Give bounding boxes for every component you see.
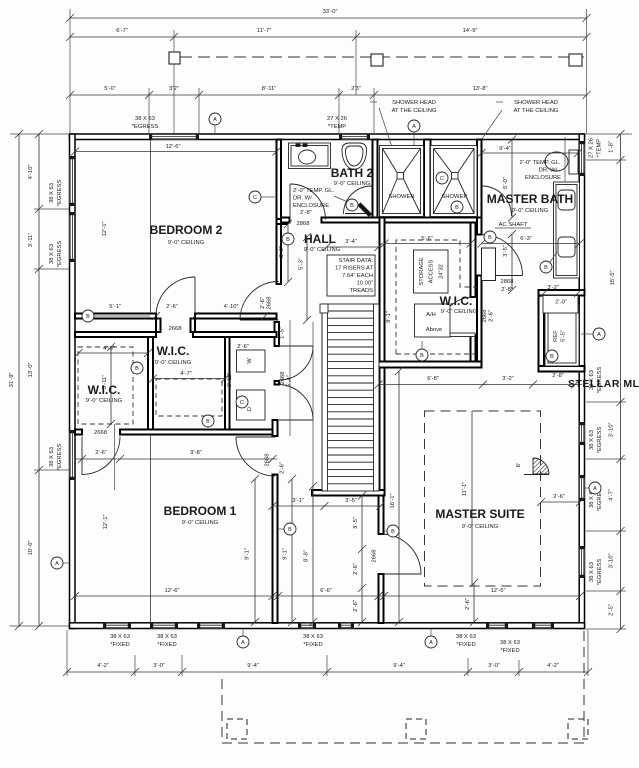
wall wic-row bottom band right [120,430,273,435]
svg-text:A: A [241,640,245,646]
svg-text:4’-2”: 4’-2” [97,663,109,669]
door bath2 [290,184,326,220]
window bottom-wall fixed 6 [532,623,554,628]
centerline bedroom2 horizontal 12'-6" [71,148,281,156]
svg-text:3’-4”: 3’-4” [345,239,357,245]
porch column 2 [406,719,426,739]
svg-text:D: D [247,407,253,411]
svg-text:2’-8”: 2’-8” [300,210,312,216]
wall stair shaft right [380,218,385,496]
svg-text:9’-1”: 9’-1” [245,548,251,560]
door shower glass masterbath [482,186,512,216]
svg-text:2’-0” TEMP. GL.: 2’-0” TEMP. GL. [293,188,334,194]
dimension masterbath 5'-0" [508,136,516,222]
dimension master 2'-6" bottom left [470,579,478,626]
wall bedroom1 right lower [273,475,278,624]
dimension masterbath shelf 3'-2" [540,289,548,297]
dimension masterbath 3'-5" [508,230,516,294]
svg-text:4’-2”: 4’-2” [547,663,559,669]
svg-text:38 X 63: 38 X 63 [303,634,323,640]
svg-text:33’-0”: 33’-0” [323,9,338,15]
svg-text:B: B [206,419,210,425]
ceiling fan master [524,458,549,475]
svg-text:*EGRESS: *EGRESS [57,180,63,207]
wall exterior left [70,134,76,629]
svg-text:4’-7”: 4’-7” [180,371,192,377]
fixture ac shaft [482,248,496,281]
svg-text:*EGRESS: *EGRESS [57,444,63,471]
extension line right y629 [586,628,626,630]
svg-text:11’-7”: 11’-7” [257,28,271,34]
door bedroom2 entry [240,282,279,321]
wall master suite left upper [379,496,384,535]
svg-text:SHOWER HEAD: SHOWER HEAD [392,100,436,106]
svg-text:3’-11”: 3’-11” [28,233,34,247]
svg-text:*FIXED: *FIXED [303,642,322,648]
svg-text:2’-6”: 2’-6” [553,494,565,500]
dimension hall 3'-8" [284,220,292,286]
wall exterior top [70,134,585,140]
svg-text:2’-6”: 2’-6” [280,462,286,474]
svg-text:38 X 63: 38 X 63 [157,634,177,640]
extension line top x374 [373,88,375,134]
svg-text:15’-5”: 15’-5” [610,271,616,286]
svg-text:2’-0”: 2’-0” [555,300,567,306]
roof post square 1 [169,52,180,64]
svg-text:3’-0”: 3’-0” [488,663,500,669]
wall below stairs [312,490,385,496]
dimension wic1 4'-3" [75,349,153,357]
fixture masterbath vanity [554,182,580,278]
extension line right y531 [586,530,626,532]
extension line bottom x468 [467,658,469,676]
svg-text:C: C [440,176,444,182]
svg-text:38 X 63: 38 X 63 [589,562,595,582]
svg-text:3’-11”: 3’-11” [227,373,233,387]
svg-text:MASTER SUITE: MASTER SUITE [435,507,524,521]
svg-text:BATH 2: BATH 2 [331,166,374,180]
svg-text:B: B [550,354,554,360]
wall wic1-wicmid divider [148,337,153,430]
svg-text:3’-5”: 3’-5” [503,245,509,257]
svg-text:2’-6”: 2’-6” [489,310,495,322]
dimension landing 9'-1" b [288,475,296,626]
window left-wall egress 2 [70,212,75,262]
window right-wall masterbath 27x26 [579,141,584,176]
dimension bedroom1 9'-1" a [251,475,259,626]
dimension master left segs [358,492,366,627]
svg-text:6’: 6’ [516,463,522,468]
svg-text:*EGRESS: *EGRESS [57,241,63,268]
svg-text:16’-1”: 16’-1” [390,494,396,509]
extension line bottom x67 [66,630,68,676]
wall wic-center right lower [471,335,476,362]
keynote C bedroom2 right [249,191,261,203]
svg-text:AC SHAFT: AC SHAFT [499,222,528,228]
svg-text:9’-4”: 9’-4” [499,146,511,152]
svg-text:5’-0”: 5’-0” [503,177,509,189]
svg-text:9’-4”: 9’-4” [393,663,405,669]
svg-text:27 X 26: 27 X 26 [327,116,347,122]
dimension top row1 33'-0" [66,14,591,22]
svg-text:B: B [391,529,395,535]
porch dashed right [583,631,585,743]
svg-text:B: B [86,314,90,320]
fixture shower1 [380,146,424,217]
extension line bottom x135 [134,655,136,676]
extension line top-left [69,9,71,134]
svg-text:HALL: HALL [304,232,336,246]
svg-text:B: B [544,265,548,271]
svg-text:9’-0” CEILING: 9’-0” CEILING [512,208,549,214]
svg-text:A/H: A/H [426,312,436,318]
keynote B shower2 [451,201,463,213]
keynote circle A right wall [589,482,601,494]
svg-text:5’-5”: 5’-5” [561,330,567,342]
wall masterbath west upper [477,218,482,235]
fixture ah unit [415,304,451,337]
window left-wall egress 1 [70,156,75,206]
svg-text:STELLAR MLS: STELLAR MLS [568,378,639,390]
svg-text:A: A [213,117,217,123]
svg-text:5’-3”: 5’-3” [299,258,305,270]
porch column 3 [568,719,588,739]
svg-text:2668: 2668 [267,297,273,310]
dimension left outer 31'-9" [15,130,23,630]
door bedroom1 entry [236,437,275,476]
wall wic-row top band right [193,332,277,337]
wall wic-row bottom band left [75,430,82,435]
svg-text:*TEMP: *TEMP [597,139,603,157]
svg-text:DR. W/: DR. W/ [539,168,558,174]
dimension left inner [35,130,43,630]
svg-text:3’-0”: 3’-0” [153,663,165,669]
dimension hall 3'-4" [323,243,383,251]
svg-text:9’-0” CEILING: 9’-0” CEILING [86,398,123,404]
extension line bottom x327 [326,655,328,676]
svg-text:2668: 2668 [169,326,182,332]
svg-text:B: B [135,366,139,372]
extension line right y160 [586,159,626,161]
svg-text:W: W [247,358,253,364]
svg-text:W.I.C.: W.I.C. [440,294,473,308]
window bottom-wall fixed 4b [338,623,354,628]
svg-text:2’-8”: 2’-8” [552,373,564,379]
roof overhang dashed line [180,56,584,58]
wall hall jog at bedroom2 [277,219,288,224]
fixture bath2 toilet [342,143,367,170]
keynote B bedroom1 wall [284,523,296,535]
wall master suite left lower [379,574,384,623]
wall hall-left middle pier [275,381,280,385]
svg-text:12’-6”: 12’-6” [165,588,180,594]
svg-text:5’-4”: 5’-4” [287,375,293,387]
svg-text:4’-7”: 4’-7” [609,489,615,501]
porch dashed left [221,679,223,743]
extension line bottom x588 [587,630,589,676]
svg-text:27 X 26: 27 X 26 [589,138,595,158]
svg-text:2’-8”: 2’-8” [501,287,513,293]
dimension landing bottom stairs [269,502,385,510]
wall wic-center bottom band [379,362,482,368]
wall bedroom2 right upper [277,140,282,285]
svg-text:*FIXED: *FIXED [157,642,176,648]
svg-text:TREADS: TREADS [349,288,373,294]
svg-text:STAIR DATA:: STAIR DATA: [339,258,374,264]
svg-text:12’-6”: 12’-6” [166,144,181,150]
dimension masterbath 9'-4" [478,149,583,157]
svg-text:8’-8”: 8’-8” [304,550,310,562]
extension line top x149 [148,88,150,134]
wall bedroom2 bottom left [75,314,156,319]
svg-text:9’-0” CEILING: 9’-0” CEILING [182,520,219,526]
svg-text:A: A [597,332,601,338]
svg-text:*FIXED: *FIXED [500,648,519,654]
keynote B bath2 [346,199,358,211]
svg-text:AT THE CEILING: AT THE CEILING [514,108,559,114]
wall exterior bottom [70,623,585,629]
keynote B wic-center [416,349,428,361]
extension line right y459 [586,458,626,460]
svg-text:3’-5”: 3’-5” [353,517,359,529]
keynote circle A shower1 [408,120,420,132]
wall hall-left piece 1'-5" [275,322,280,346]
dimension corridor y384 [375,381,583,389]
keynote B master wall [387,525,399,537]
svg-text:8’-11”: 8’-11” [262,86,276,92]
wall shower2-masterbath divider [477,140,482,218]
svg-text:DR. W/: DR. W/ [293,196,312,202]
keynote circle A left wall [51,557,63,569]
svg-text:10.00”: 10.00” [357,281,374,287]
dimension master 2'-6" fan [537,498,584,506]
svg-text:2668: 2668 [94,430,107,436]
extension line top x174 [173,30,175,133]
keynote B masterbath vanity [540,261,552,273]
door wic-center [437,297,475,337]
extension line left top [10,133,70,135]
svg-text:AT THE CEILING: AT THE CEILING [392,108,437,114]
svg-text:2668: 2668 [372,550,378,563]
svg-text:BEDROOM 1: BEDROOM 1 [164,504,237,518]
svg-text:9’-8”: 9’-8” [190,450,202,456]
dimension hall 5'-3" [303,233,311,324]
svg-text:2’-0” TEMP. GL.: 2’-0” TEMP. GL. [519,160,560,166]
svg-text:*EGRESS: *EGRESS [597,427,603,454]
svg-text:SHOWER: SHOWER [388,194,414,200]
svg-text:A: A [429,640,433,646]
svg-text:C: C [253,195,257,201]
dimension bedroom1 top [75,455,277,463]
wall bath2-shower1 divider [373,140,378,218]
dimension master 16'-1" [395,367,403,626]
keynote circle A right ref [593,328,605,340]
svg-text:2’-6”: 2’-6” [260,297,266,309]
fixture bath2 vanity [289,143,331,169]
svg-text:3’-2”: 3’-2” [502,376,514,382]
svg-text:BEDROOM 2: BEDROOM 2 [150,223,223,237]
svg-text:17 RISERS AT: 17 RISERS AT [335,266,373,272]
wall passage side left [156,319,161,333]
fixture laundry dryer [237,390,266,420]
wall shower1-shower2 divider [424,140,431,218]
svg-text:A: A [412,124,416,130]
svg-text:5’-1”: 5’-1” [109,304,121,310]
svg-text:2’-6”: 2’-6” [353,563,359,575]
centerline bedroom2 vertical 12'-1" [150,140,152,314]
keynote B wicmid [202,415,214,427]
keynote circle A bottom2 [425,636,437,648]
door master bath [482,235,523,276]
svg-text:B: B [350,203,354,209]
extension line right y402 [586,401,626,403]
extension line x290 hall [289,320,291,436]
svg-text:B: B [286,237,290,243]
stair data box [327,255,375,296]
wall exterior right [579,134,584,629]
svg-text:B: B [488,235,492,241]
svg-text:5’-11”: 5’-11” [102,375,108,389]
svg-text:STORAGE: STORAGE [419,257,425,285]
wall wicmid-laundry divider [225,337,230,430]
dimension landing 8'-8" [309,482,317,626]
svg-text:9’-1”: 9’-1” [386,311,392,323]
fixture bath2 shower door [344,186,373,217]
keynote B wic1 [131,362,143,374]
wall hall-left lower piece [273,420,278,436]
keynote C laundry [236,396,248,408]
stairs [320,304,379,491]
svg-text:2’-6”: 2’-6” [465,598,471,610]
dashed storage access [396,240,477,354]
svg-text:2668: 2668 [482,310,488,323]
wall masterbath west lower [477,276,482,363]
svg-text:6’-8”: 6’-8” [427,376,439,382]
window top-wall 38x63 egress [149,134,199,139]
dimension bottom row [63,668,592,676]
porch dashed bottom [222,742,584,744]
svg-text:*EGRESS: *EGRESS [132,124,159,130]
svg-text:2868: 2868 [501,279,514,285]
dimension right [617,130,625,633]
wall passage side right [191,319,196,333]
svg-text:13’-0”: 13’-0” [28,363,34,378]
dimension masterbath 6'-3" [478,240,584,248]
svg-text:3’-2”: 3’-2” [547,285,559,291]
dimension wic1 5'-11" [107,343,115,428]
dimension top row2 [66,33,591,41]
storage access box [414,250,449,293]
svg-text:3’-8”: 3’-8” [279,246,285,258]
svg-text:4’-10”: 4’-10” [224,304,239,310]
svg-text:13’-8”: 13’-8” [473,86,488,92]
svg-text:*TEMP: *TEMP [328,124,346,130]
svg-text:38 X 63: 38 X 63 [456,634,476,640]
door laundry lower [279,385,313,421]
window left-wall bedroom1 egress [70,430,75,480]
svg-text:38 X 63: 38 X 63 [49,183,55,203]
svg-text:24”32: 24”32 [439,264,445,279]
svg-text:2’-6”: 2’-6” [166,304,178,310]
window right-wall master 3 [579,546,584,578]
dimension bedroom2 bottom [152,312,160,320]
window right-wall master 2 [579,475,584,501]
extension line x114 bedroom1 [114,424,116,490]
extension line top x199 [198,88,200,134]
door master suite [381,534,421,574]
svg-text:5’-6”: 5’-6” [421,236,433,242]
door laundry upper [279,346,313,380]
extension line bottom x519 [518,660,520,676]
svg-text:9’-4”: 9’-4” [247,663,259,669]
svg-text:2868: 2868 [297,221,310,227]
wall masterbath south band [539,290,585,296]
svg-text:38 X 63: 38 X 63 [135,116,155,122]
porch column 1 [227,719,247,739]
wall bedroom2 bottom right [195,314,277,319]
roof post square 2 [371,54,383,66]
keynote C shower2 [436,172,448,184]
dashed wicmid shelving [156,379,222,416]
svg-text:9’-1”: 9’-1” [283,548,289,560]
svg-text:6’-7”: 6’-7” [116,28,128,34]
svg-text:9’-0” CEILING: 9’-0” CEILING [441,309,478,315]
svg-text:B: B [288,527,292,533]
svg-text:9’-0” CEILING: 9’-0” CEILING [334,181,371,187]
centerline master vertical 11'-1" [471,411,473,586]
svg-text:38 X 63: 38 X 63 [110,634,130,640]
svg-text:2’-6”: 2’-6” [237,344,249,350]
svg-text:*FIXED: *FIXED [110,642,129,648]
svg-text:ENCLOSURE: ENCLOSURE [525,175,561,181]
extension line x313 hall [312,322,314,506]
window bottom-wall fixed 4 [298,623,316,628]
svg-text:38 X 63: 38 X 63 [49,447,55,467]
svg-text:SHOWER HEAD: SHOWER HEAD [514,100,558,106]
svg-text:2668: 2668 [265,454,271,467]
svg-text:11’-1”: 11’-1” [462,482,468,496]
dimension wic-center 5'-6" [381,240,475,248]
keynote B masterbath door [484,231,496,243]
svg-text:3’-5”: 3’-5” [345,498,357,504]
door bedroom2 closet-passage [156,277,195,316]
svg-text:10’-0”: 10’-0” [28,541,34,556]
extension line top x356 [355,30,357,95]
fixture shower2 master [431,146,478,217]
fixture laundry washer [237,350,266,372]
dimension top row3 [66,91,591,99]
svg-text:*EGRESS: *EGRESS [597,559,603,586]
svg-text:9’-0” CEILING: 9’-0” CEILING [304,247,341,253]
svg-text:ENCLOSURE: ENCLOSURE [293,203,329,209]
svg-text:38 X 63: 38 X 63 [500,640,520,646]
fixture ref closet [545,305,579,366]
extension line top x339 [338,88,340,134]
svg-text:14’-9”: 14’-9” [463,28,478,34]
wall master suite top right band [539,366,585,372]
svg-text:3’-1”: 3’-1” [292,498,304,504]
keynote circle A bottom1 [237,636,249,648]
svg-text:REF: REF [553,330,559,342]
svg-text:1’-5”: 1’-5” [280,327,286,339]
window top-wall bath2 27x26 [339,134,370,139]
keynote circle A top-left [209,113,221,125]
window bottom-wall fixed 3 [197,623,225,628]
svg-text:A: A [55,561,59,567]
svg-text:SHOWER: SHOWER [441,194,467,200]
svg-text:38 X 63: 38 X 63 [589,430,595,450]
svg-text:B: B [455,205,459,211]
